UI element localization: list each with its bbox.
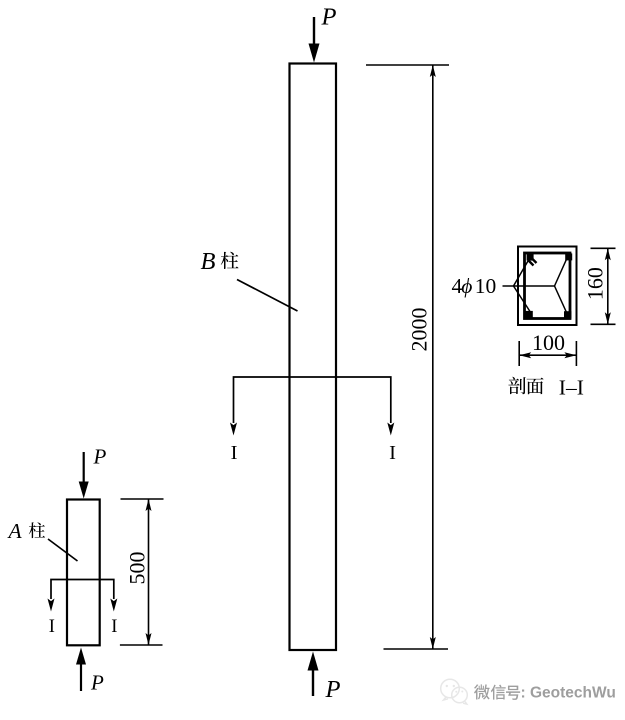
section arrow right A bbox=[110, 599, 117, 612]
svg-text:B: B bbox=[201, 248, 216, 275]
load arrow P top of A bbox=[79, 452, 89, 499]
rebar bottom-left bbox=[525, 311, 532, 318]
stirrup bbox=[525, 253, 571, 319]
dimension line 2000 bbox=[430, 65, 436, 649]
svg-text:I: I bbox=[389, 442, 396, 464]
dimension line 100 bbox=[519, 352, 576, 358]
svg-text:: GeotechWu: : GeotechWu bbox=[521, 684, 616, 701]
dimension extension line right 100 bbox=[575, 341, 577, 366]
dimension extension line top A bbox=[121, 498, 164, 500]
leader line 4phi10 horizontal bbox=[503, 285, 555, 287]
rebar top-left bbox=[527, 254, 534, 261]
svg-text:100: 100 bbox=[532, 330, 565, 355]
dimension line 500 bbox=[146, 499, 152, 645]
svg-text:I: I bbox=[111, 617, 117, 637]
rebar bottom-right bbox=[564, 311, 571, 318]
svg-text:P: P bbox=[325, 676, 341, 703]
svg-text:4ϕ10: 4ϕ10 bbox=[452, 274, 497, 298]
column B outline bbox=[290, 64, 337, 651]
section arrow right B bbox=[387, 423, 394, 436]
svg-text:2000: 2000 bbox=[407, 308, 432, 352]
load arrow P bottom of A bbox=[76, 648, 86, 692]
dimension extension line bottom B bbox=[384, 648, 449, 650]
leader line from B label to column bbox=[237, 280, 298, 312]
leader branch to top-right bar bbox=[555, 257, 568, 286]
label section I-I bbox=[508, 376, 583, 400]
load arrow P bottom of B bbox=[308, 652, 319, 697]
watermark text weixinhao bbox=[474, 684, 521, 701]
svg-text:500: 500 bbox=[124, 552, 149, 585]
dimension extension line left 100 bbox=[518, 341, 520, 366]
svg-text:A: A bbox=[7, 519, 23, 543]
leader branch to left bars bbox=[514, 258, 531, 312]
section concrete outline bbox=[518, 247, 577, 326]
column A outline bbox=[67, 500, 100, 646]
svg-text:I–I: I–I bbox=[559, 376, 584, 400]
dimension extension line bottom A bbox=[120, 644, 163, 646]
section arrow left B bbox=[230, 423, 237, 436]
label A zhu bbox=[7, 519, 46, 543]
section cut line I-I on B bbox=[234, 377, 391, 423]
svg-text:P: P bbox=[90, 671, 104, 695]
label B zhu bbox=[201, 248, 239, 275]
dimension extension line top B bbox=[366, 64, 449, 66]
dimension line 160 bbox=[605, 248, 611, 324]
stirrup hook marks bbox=[529, 258, 537, 266]
svg-text:I: I bbox=[231, 442, 238, 464]
svg-text:160: 160 bbox=[583, 267, 608, 300]
svg-text:P: P bbox=[93, 445, 107, 469]
load arrow P top of B bbox=[309, 17, 320, 63]
section arrow left A bbox=[48, 599, 55, 612]
section cut line I-I on A bbox=[51, 580, 114, 600]
leader branch to bottom-right bar bbox=[555, 286, 568, 314]
watermark wechat icon bbox=[441, 679, 468, 704]
rebar top-right bbox=[565, 253, 572, 260]
dimension extension line bottom 160 bbox=[591, 323, 616, 325]
leader line from A label to column bbox=[48, 539, 78, 561]
dimension extension line top 160 bbox=[591, 247, 616, 249]
svg-text:I: I bbox=[49, 617, 55, 637]
svg-text:P: P bbox=[321, 4, 337, 31]
